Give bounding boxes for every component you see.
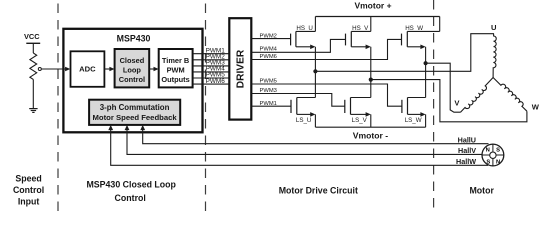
- svg-text:VCC: VCC: [24, 32, 40, 41]
- svg-text:Loop: Loop: [123, 65, 142, 74]
- transistor Q_LS_W (low-side W): [402, 98, 426, 117]
- node phase V junction: [369, 78, 373, 82]
- svg-text:PWM: PWM: [167, 65, 185, 74]
- gate driver U2 DRIVER: [229, 18, 251, 119]
- svg-text:HS_U: HS_U: [296, 25, 313, 32]
- wire PWM3 Timer B to driver: [193, 65, 230, 67]
- svg-text:ADC: ADC: [79, 65, 96, 74]
- svg-text:HS_V: HS_V: [352, 25, 369, 32]
- transistor Q_HS_V (high-side V): [346, 17, 371, 50]
- section divider dashed line (MSP430 | Motor Drive Circuit): [205, 0, 207, 213]
- svg-text:HallV: HallV: [458, 146, 476, 155]
- svg-text:PWM4: PWM4: [259, 47, 277, 53]
- svg-text:Motor: Motor: [469, 186, 494, 196]
- node phase W junction: [424, 61, 428, 65]
- svg-text:Control: Control: [115, 193, 146, 203]
- transistor Q_LS_V (low-side V): [345, 98, 371, 117]
- wire PWM4 driver to gate: [251, 39, 345, 52]
- wire HallW hall sensor to 3-ph commutation: [111, 130, 488, 165]
- wire PWM5 Timer B to driver: [193, 77, 230, 79]
- wire phase U to motor winding U: [315, 34, 494, 72]
- svg-text:LS_U: LS_U: [296, 117, 311, 124]
- ADC block: [71, 51, 105, 87]
- svg-text:PWM6: PWM6: [259, 54, 276, 60]
- node phase U junction: [313, 69, 317, 73]
- wire PWM5 driver to gate: [251, 84, 402, 106]
- transistor Q_HS_W (high-side W): [402, 17, 440, 50]
- svg-text:Control: Control: [119, 75, 145, 84]
- wire phase W column to motor winding V: [426, 63, 461, 112]
- wire PWM2 Timer B to driver: [193, 59, 230, 61]
- svg-text:LS_W: LS_W: [405, 117, 422, 124]
- hall sensor rotor (motor position sensor): [482, 144, 504, 166]
- wire phase node column W: [425, 47, 427, 98]
- svg-text:3-ph Commutation: 3-ph Commutation: [100, 103, 170, 112]
- Vmotor+ rail wire: [315, 16, 439, 18]
- transistor Q_HS_U (high-side U): [291, 17, 316, 50]
- wire PWM6 Timer B to driver: [193, 83, 230, 85]
- svg-text:PWM2: PWM2: [259, 33, 276, 39]
- arrow ADC to Closed Loop Control: [104, 68, 110, 70]
- svg-text:Speed: Speed: [15, 173, 41, 183]
- wire PWM1 Timer B to driver: [193, 53, 230, 55]
- svg-text:Closed: Closed: [120, 56, 145, 65]
- potentiometer R1 (speed setpoint): [30, 53, 37, 79]
- svg-text:Outputs: Outputs: [161, 75, 189, 84]
- VCC power rail bar: [26, 42, 40, 44]
- svg-text:PWM1: PWM1: [259, 101, 276, 107]
- transistor Q_LS_U (low-side U): [291, 98, 315, 117]
- MSP430 block U1: [63, 29, 202, 133]
- svg-text:PWM6: PWM6: [206, 78, 226, 85]
- arrow speed setpoint into ADC: [62, 68, 66, 70]
- svg-text:DRIVER: DRIVER: [236, 49, 247, 88]
- wire PWM2 driver to gate: [251, 38, 290, 40]
- Closed Loop Control block: [115, 49, 150, 87]
- svg-text:Motor Speed Feedback: Motor Speed Feedback: [93, 113, 178, 122]
- svg-text:N: N: [496, 159, 500, 165]
- wire PWM1 driver to gate: [251, 105, 291, 107]
- svg-text:Control: Control: [13, 185, 44, 195]
- wire VCC to potentiometer: [32, 43, 34, 53]
- svg-text:Timer B: Timer B: [162, 56, 189, 65]
- svg-text:PWM3: PWM3: [259, 88, 276, 94]
- svg-text:U: U: [491, 23, 497, 32]
- svg-text:HallU: HallU: [458, 135, 476, 144]
- wire potentiometer to ground: [32, 79, 34, 108]
- arrow Closed Loop Control to Timer B: [149, 68, 154, 70]
- wire PWM3 driver to gate: [251, 94, 344, 107]
- svg-text:Motor Drive Circuit: Motor Drive Circuit: [279, 186, 358, 196]
- motor winding V (inductor coil): [461, 78, 494, 113]
- svg-text:LS_V: LS_V: [352, 117, 368, 124]
- 3-ph Commutation Motor Speed Feedback block: [89, 100, 180, 125]
- potentiometer wiper tap: [38, 68, 41, 71]
- svg-text:N: N: [486, 148, 490, 154]
- svg-text:S: S: [486, 159, 490, 165]
- svg-text:HallW: HallW: [456, 157, 476, 166]
- ground: [29, 108, 37, 110]
- Vmotor- rail wire: [315, 126, 425, 128]
- wire phase node column U: [314, 47, 316, 98]
- svg-text:S: S: [496, 148, 500, 154]
- svg-text:MSP430: MSP430: [117, 33, 151, 43]
- svg-text:Vmotor +: Vmotor +: [354, 1, 391, 11]
- wire phase node column V: [370, 47, 372, 98]
- wire HallV hall sensor to 3-ph commutation: [127, 130, 482, 154]
- Timer B PWM Outputs block: [159, 49, 193, 87]
- svg-text:Input: Input: [18, 197, 40, 207]
- svg-text:PWM5: PWM5: [259, 79, 276, 85]
- section divider dashed line (Speed Control Input | MSP430): [57, 0, 59, 213]
- motor winding U (inductor coil): [493, 34, 496, 78]
- wire PWM4 Timer B to driver: [193, 71, 230, 73]
- wire HallU hall sensor to 3-ph commutation: [143, 130, 489, 144]
- svg-text:MSP430 Closed Loop: MSP430 Closed Loop: [86, 179, 176, 189]
- section divider dashed line (Motor Drive Circuit | Motor): [433, 0, 435, 213]
- wire PWM6 driver to gate: [251, 39, 401, 59]
- svg-text:W: W: [532, 103, 540, 112]
- svg-text:Vmotor -: Vmotor -: [353, 130, 388, 140]
- wire wiper to ADC: [41, 68, 63, 70]
- wire phase V column to motor winding W: [371, 80, 527, 122]
- svg-text:HS_W: HS_W: [405, 25, 423, 32]
- motor winding W (inductor coil): [493, 78, 527, 112]
